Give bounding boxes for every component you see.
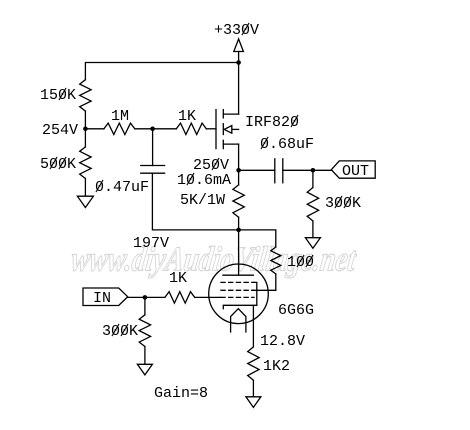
wire top rail: [85, 63, 238, 80]
svg-text:+330V: +330V: [214, 22, 259, 39]
ground under 300K out: [305, 238, 320, 249]
wire 100 to screen grid: [252, 274, 276, 290]
node source/out: [236, 168, 241, 173]
svg-text:IN: IN: [93, 290, 111, 307]
resistor R 1K2 cathode: [248, 347, 259, 380]
resistor R 1K gate: [153, 128, 177, 130]
svg-text:12.8V: 12.8V: [260, 333, 305, 350]
tube grid suppressor: [221, 281, 254, 283]
wire 500K to ground: [84, 179, 86, 197]
flag IN: [83, 288, 128, 306]
wire 1K to grid: [195, 296, 221, 298]
ground under 300K input: [137, 364, 152, 375]
svg-text:1K: 1K: [178, 108, 196, 125]
tube V1 6G6G envelope: [209, 264, 269, 324]
node IN: [143, 295, 148, 300]
svg-text:150K: 150K: [40, 87, 76, 104]
svg-text:0.47uF: 0.47uF: [95, 179, 149, 196]
svg-text:1K: 1K: [169, 270, 187, 287]
svg-text:300K: 300K: [102, 323, 138, 340]
node out: [311, 168, 316, 173]
ground under 500K: [77, 196, 93, 207]
node top rail junction: [236, 60, 241, 65]
wire 1K to gate: [206, 128, 216, 130]
flag OUT: [331, 161, 375, 178]
wire drain to rail: [238, 63, 240, 115]
tube suppressor tie: [254, 282, 257, 305]
capacitor C 0.68uF: [239, 169, 275, 171]
resistor R 300K out: [312, 170, 314, 187]
resistor R 1K grid stopper: [145, 296, 165, 298]
svg-text:www.diyAudioVillage.net: www.diyAudioVillage.net: [69, 240, 359, 279]
power arrow +330V: [234, 39, 244, 52]
ground under 1K2: [246, 397, 261, 408]
resistor R 100 screen: [271, 247, 281, 274]
resistor R 150K: [80, 80, 91, 111]
resistor R 5K/1W: [238, 170, 240, 185]
svg-text:300K: 300K: [325, 195, 361, 212]
svg-text:197V: 197V: [133, 235, 169, 252]
wire 1M to junction: [135, 128, 153, 130]
svg-text:1K2: 1K2: [263, 358, 290, 375]
wire 1K2 to ground: [252, 380, 254, 397]
tube grid control: [221, 296, 254, 298]
svg-text:100: 100: [287, 254, 314, 271]
svg-text:6G6G: 6G6G: [278, 302, 314, 319]
node junction grid divider: [150, 127, 155, 132]
wire arrow to rail: [238, 52, 240, 63]
wire cap to out node: [283, 169, 313, 171]
watermark www.diyAudioVillage.net: [69, 240, 359, 279]
wire IN to node: [128, 296, 145, 298]
node 197V: [236, 228, 241, 233]
svg-text:IRF820: IRF820: [245, 114, 299, 131]
resistor R 300K input: [144, 297, 146, 314]
svg-text:Gain=8: Gain=8: [154, 385, 208, 402]
capacitor C 0.47uF: [152, 129, 154, 166]
tube filament: [231, 309, 246, 332]
tube cathode: [223, 305, 256, 308]
node 254V: [83, 127, 88, 132]
svg-text:OUT: OUT: [342, 163, 369, 180]
resistor R 500K: [84, 129, 86, 147]
tube grid screen: [221, 289, 254, 291]
wire 300K to ground: [312, 221, 314, 238]
wire source down: [238, 144, 240, 170]
svg-text:500K: 500K: [40, 156, 76, 173]
svg-text:5K/1W: 5K/1W: [180, 192, 225, 209]
svg-text:10.6mA: 10.6mA: [177, 172, 231, 189]
svg-text:254V: 254V: [42, 122, 78, 139]
transistor Q1 IRF820 MOSFET: [215, 110, 217, 149]
wire 150K to node: [84, 111, 86, 129]
wire 300K to ground: [144, 347, 146, 365]
svg-text:1M: 1M: [111, 108, 129, 125]
wire 197V rail: [152, 173, 275, 247]
wire cathode down: [252, 305, 254, 347]
zero slashes: [50, 23, 351, 335]
resistor R 1M: [85, 128, 104, 130]
svg-text:0.68uF: 0.68uF: [260, 136, 314, 153]
wire out node to flag: [313, 169, 331, 171]
tube plate: [238, 230, 240, 275]
